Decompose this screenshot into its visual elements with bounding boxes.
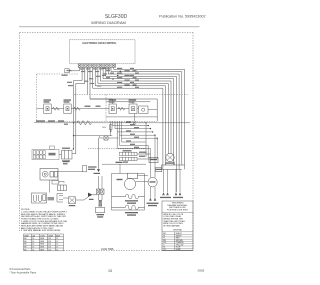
latch aux box <box>58 182 67 191</box>
svg-text:16: 16 <box>32 238 34 240</box>
right nest bars <box>157 162 184 170</box>
door lock DLB oval <box>148 177 157 187</box>
lower junction wire <box>102 162 146 165</box>
X junction symbol <box>133 114 137 125</box>
connector pair P7 dashed outline <box>88 148 146 150</box>
wires around terminal block <box>59 148 76 154</box>
junction dots on fan <box>112 71 121 80</box>
branch wire to lower left components <box>73 122 112 136</box>
probe arrows pair 3 <box>173 169 183 198</box>
header rule <box>19 26 200 28</box>
svg-text:15: 15 <box>56 247 58 249</box>
terminal block TB <box>32 146 59 160</box>
svg-text:LEGEND: LEGEND <box>173 230 182 232</box>
svg-text:ELECTRONIC OVEN CONTROL: ELECTRONIC OVEN CONTROL <box>82 43 117 45</box>
door latch assembly <box>32 193 64 203</box>
surface switch SW1 <box>44 99 52 113</box>
svg-text:105: 105 <box>48 247 51 249</box>
dashed sub-panel right <box>74 95 188 122</box>
right bundle verticals to lower components <box>146 123 157 178</box>
wire bundle from EOC connector <box>69 67 185 192</box>
EOC connector strip P1 <box>78 64 116 67</box>
latch connector box with X <box>63 197 84 206</box>
svg-text:15: 15 <box>108 269 112 273</box>
wire color labels on fan <box>62 68 140 88</box>
svg-text:SEW: SEW <box>40 238 44 240</box>
small connector at left of bundle <box>65 69 69 73</box>
row interconnect wires with resistor symbols <box>36 106 157 117</box>
svg-text:15: 15 <box>56 244 58 246</box>
svg-text:0505: 0505 <box>198 268 205 272</box>
svg-text:3. SEE MINI MANUAL FOR MORE D: 3. SEE MINI MANUAL FOR MORE DETAIL. <box>21 229 61 232</box>
staircase junction dots <box>145 122 158 139</box>
svg-text:IN THIS DIAGRAM.: IN THIS DIAGRAM. <box>163 224 180 227</box>
broil element coil <box>112 205 145 216</box>
wiring diagram title <box>91 20 126 25</box>
down arrow terminal <box>94 138 101 174</box>
model number label <box>105 14 128 20</box>
date code <box>198 268 205 272</box>
svg-text:3-LW 7006: 3-LW 7006 <box>101 247 114 251</box>
drawing number label <box>101 247 114 251</box>
svg-text:105: 105 <box>48 238 51 240</box>
connector pair P7 rows <box>120 150 158 163</box>
svg-text:105: 105 <box>48 241 51 243</box>
svg-text:16: 16 <box>32 241 34 243</box>
oven light OL <box>40 169 83 181</box>
P2 connector tag with X <box>100 136 119 140</box>
MDL fuse on vertical feed <box>103 123 113 136</box>
surface switch SW4 <box>129 99 137 113</box>
surface switch SW2 <box>64 99 72 113</box>
svg-text:POSITION DOOR SHUT: POSITION DOOR SHUT <box>167 210 189 212</box>
door lock motor M <box>117 173 149 189</box>
svg-text:SEW: SEW <box>40 249 44 251</box>
svg-text:* Non-Accessible Parts: * Non-Accessible Parts <box>10 270 37 274</box>
svg-text:16: 16 <box>32 244 34 246</box>
bake element coil <box>112 194 145 203</box>
latch interlock switch symbol <box>84 193 97 200</box>
lock motor chain <box>96 176 105 218</box>
wire staircase to right bundle <box>111 121 158 148</box>
svg-text:MDL: MDL <box>103 127 107 129</box>
svg-text:SEW: SEW <box>40 244 44 246</box>
electronic oven control EOC (dashed box) <box>70 40 135 64</box>
svg-text:105: 105 <box>48 249 51 251</box>
timer box <box>155 168 162 172</box>
console outline (dashed border) <box>20 33 194 251</box>
svg-text:15: 15 <box>56 238 58 240</box>
svg-text:GRAY: GRAY <box>176 248 182 251</box>
svg-text:SEW: SEW <box>40 247 44 249</box>
relay K1 box <box>149 158 158 163</box>
footer functional parts note <box>10 267 37 274</box>
svg-text:105: 105 <box>48 244 51 246</box>
probe arrows pair 2 <box>160 169 171 198</box>
svg-text:15: 15 <box>56 249 58 251</box>
svg-text:Publication No. 5995423002: Publication No. 5995423002 <box>159 14 205 18</box>
main L1 wire with labels <box>34 120 190 125</box>
wire from oven light down to latch area <box>49 180 58 193</box>
svg-text:SEW: SEW <box>40 241 44 243</box>
svg-text:15: 15 <box>56 241 58 243</box>
svg-text:WIRING DIAGRAM: WIRING DIAGRAM <box>91 20 126 25</box>
page number <box>108 269 112 273</box>
svg-text:# Functional Parts: # Functional Parts <box>10 267 32 271</box>
svg-text:SLGF30D: SLGF30D <box>105 14 128 20</box>
svg-text:16: 16 <box>32 249 34 251</box>
lamp receptacle box <box>63 161 97 172</box>
plug P5 <box>62 148 73 162</box>
indicator light box <box>139 106 149 114</box>
probe arrows pair 1 <box>147 187 159 206</box>
staircase wire labels <box>126 121 139 148</box>
wire gauge table <box>24 234 64 251</box>
publication number label <box>159 14 205 18</box>
svg-text:16: 16 <box>32 247 34 249</box>
oven lamp circle <box>166 153 174 163</box>
surface switch SW3 <box>109 99 117 113</box>
legend box <box>162 201 193 251</box>
heating loop frame <box>112 164 145 210</box>
notes block <box>21 209 68 232</box>
dashed sub-panel left <box>36 74 157 121</box>
